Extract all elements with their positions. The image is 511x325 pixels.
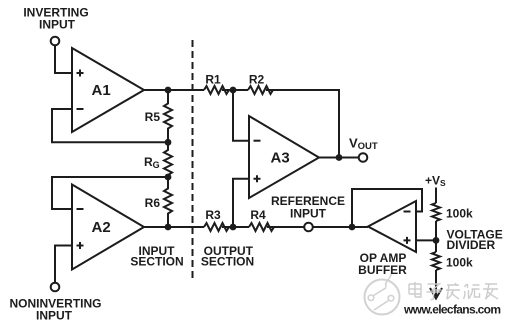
resistor R4 bbox=[249, 208, 274, 231]
svg-text:R2: R2 bbox=[249, 73, 265, 87]
wire to divider tap bbox=[435, 221, 437, 252]
svg-text:www.elecfans.com: www.elecfans.com bbox=[403, 303, 501, 317]
svg-text:SECTION: SECTION bbox=[130, 254, 183, 268]
resistor RG bbox=[144, 142, 172, 177]
ground arrow (negative rail) bbox=[430, 288, 442, 299]
svg-text:R3: R3 bbox=[205, 208, 221, 222]
terminal noninverting input bbox=[51, 283, 60, 292]
wire inverting input to A1 + bbox=[55, 45, 72, 73]
svg-text:R5: R5 bbox=[145, 110, 161, 124]
label NONINVERTING INPUT bbox=[9, 297, 101, 323]
wire buffer + input to divider tap bbox=[416, 239, 436, 241]
svg-text:A3: A3 bbox=[271, 150, 290, 167]
resistor 100k upper bbox=[432, 203, 473, 221]
node R5/RG junction bbox=[165, 139, 172, 146]
wire A1 output bbox=[144, 89, 204, 91]
wire A2 feedback to RG/R6 node bbox=[52, 177, 165, 209]
node RG/R6 junction bbox=[165, 174, 172, 181]
label OUTPUT SECTION bbox=[201, 244, 254, 268]
wire to negative rail arrow bbox=[435, 270, 437, 296]
label OP AMP BUFFER bbox=[358, 251, 407, 277]
section boundary dashed line bbox=[192, 40, 194, 278]
wire A1 feedback to R5/RG node bbox=[52, 109, 165, 142]
svg-text:100k: 100k bbox=[446, 256, 473, 270]
watermark logo circle bbox=[365, 274, 400, 315]
label VOLTAGE DIVIDER bbox=[447, 228, 503, 253]
resistor R3 bbox=[204, 208, 229, 231]
wire R1-R2 bbox=[222, 89, 248, 91]
svg-text:DIVIDER: DIVIDER bbox=[447, 238, 496, 252]
node R1/R2 junction bbox=[230, 87, 237, 94]
wire A3 output bbox=[319, 157, 359, 159]
node A2 output / R6 bottom bbox=[165, 224, 172, 231]
wire +VS down bbox=[435, 188, 437, 204]
svg-text:R1: R1 bbox=[205, 73, 221, 87]
op-amp A1 bbox=[72, 48, 144, 132]
terminal VOUT bbox=[359, 153, 368, 162]
svg-text:BUFFER: BUFFER bbox=[358, 263, 407, 277]
wire R2 to A3 output node bbox=[266, 90, 339, 158]
svg-text:SECTION: SECTION bbox=[201, 254, 254, 268]
op-amp buffer U1 bbox=[368, 201, 416, 252]
node R3/R4 junction bbox=[230, 224, 237, 231]
svg-text:INPUT: INPUT bbox=[36, 309, 73, 323]
svg-text:A1: A1 bbox=[92, 82, 111, 99]
node divider tap bbox=[433, 237, 440, 244]
op-amp A3 bbox=[249, 116, 319, 198]
svg-text:R4: R4 bbox=[250, 208, 266, 222]
resistor 100k lower bbox=[432, 252, 473, 270]
node A1 output bbox=[165, 87, 172, 94]
terminal reference input bbox=[304, 223, 313, 232]
supply +VS bbox=[425, 174, 446, 189]
node A3 output bbox=[336, 154, 343, 161]
resistor R1 bbox=[204, 73, 229, 95]
svg-text:100k: 100k bbox=[446, 207, 473, 221]
wire buffer feedback loop bbox=[352, 189, 422, 227]
wire noninverting input to A2 + bbox=[55, 246, 72, 283]
svg-text:R6: R6 bbox=[145, 196, 161, 210]
wire R4 to reference terminal bbox=[267, 226, 304, 228]
resistor R6 bbox=[145, 177, 172, 227]
svg-text:INPUT: INPUT bbox=[290, 206, 327, 220]
label INVERTING INPUT bbox=[23, 6, 88, 32]
wire R3-R4 bbox=[222, 226, 249, 228]
watermark chinese characters bbox=[409, 282, 498, 300]
resistor R2 bbox=[248, 73, 273, 95]
terminal inverting input bbox=[51, 37, 60, 46]
label REFERENCE INPUT bbox=[271, 194, 345, 220]
wire A2 output to R3 bbox=[144, 226, 204, 228]
node buffer output bbox=[349, 224, 356, 231]
wire A3 inverting input bbox=[233, 90, 249, 141]
svg-text:A2: A2 bbox=[92, 219, 111, 236]
wire A3 noninverting input bbox=[233, 179, 249, 227]
svg-text:INPUT: INPUT bbox=[39, 18, 76, 32]
wire reference terminal to buffer output node bbox=[313, 226, 368, 228]
label INPUT SECTION bbox=[130, 244, 183, 268]
op-amp A2 bbox=[72, 185, 144, 270]
resistor R5 bbox=[145, 90, 172, 142]
label VOUT bbox=[349, 136, 378, 153]
